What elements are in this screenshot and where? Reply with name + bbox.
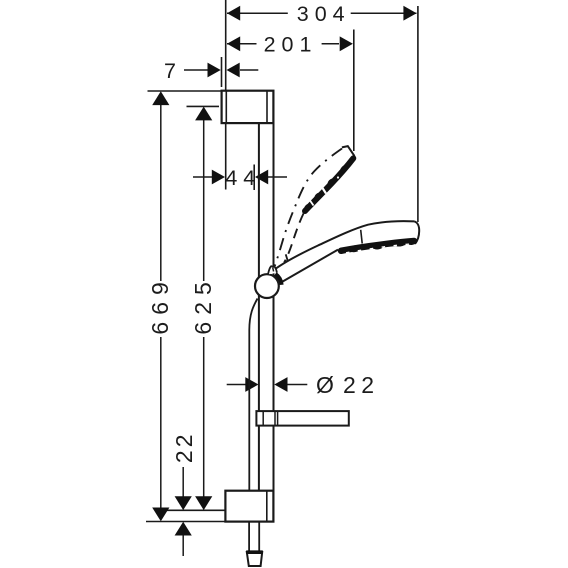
top bracket inner line left [225, 91, 227, 123]
arrow 304 right [403, 6, 416, 21]
dimension 22 vertical line upper [182, 467, 184, 497]
extension line bottom for 625 (y=510.3) [157, 509, 225, 511]
clip prong above handle [286, 254, 288, 261]
upright face band white speck 3 [337, 176, 339, 178]
holder/handle joint shadow [275, 275, 281, 285]
dashed outline left of upright shower (phantom position) [275, 149, 342, 267]
upright face band lump 1 [339, 164, 350, 175]
soap dish collar line right2 [277, 411, 279, 426]
soap dish collar line left [262, 411, 264, 426]
hose left edge curve from handle [249, 299, 257, 491]
extension line 44 left: wall line below bracket (x=225.7) [225, 123, 227, 190]
dimension 44 tail lines [193, 176, 213, 178]
top bracket inner line right [266, 91, 268, 123]
svg-text:625: 625 [190, 275, 216, 334]
arrow 22 down (tip at 510.3) [175, 496, 192, 510]
soap dish [256, 411, 348, 426]
extension line bottom for 669 (y=521.5) [146, 521, 225, 523]
arrow 22 up (tip at 521.5) [175, 522, 192, 536]
svg-text:Ø: Ø [316, 372, 334, 398]
solid head handle/face junction tick [361, 230, 363, 244]
upright shower head roof corner [342, 146, 355, 156]
solid face band texture [346, 244, 412, 253]
extension line right of 201 (x=353.8) [353, 30, 355, 152]
extension line 7 left (x=221.5) [221, 57, 223, 87]
dimension Ø22 tail lines [227, 384, 246, 386]
arrow 304 left [227, 6, 240, 21]
bottom bracket inner line [266, 491, 268, 522]
hose conical nut [247, 552, 262, 566]
top wall bracket [222, 91, 274, 123]
hose below bottom bracket left edge [248, 522, 250, 552]
arrow 44 pointing left [255, 170, 268, 185]
dimension 7 tail lines [184, 69, 208, 71]
upright face band white notch 1 [323, 188, 327, 194]
dimension 669 vertical line [160, 105, 162, 281]
holder handle lower line [279, 250, 338, 284]
solid head right edge [415, 221, 420, 243]
upright face band lump 4 [303, 203, 312, 212]
arrow 669 down [152, 508, 169, 522]
solid face band lump 4 [407, 239, 416, 246]
svg-text:7: 7 [164, 59, 176, 83]
extension line top for 625 (y=106.4) [187, 105, 220, 107]
solid head spray face (dark band) [341, 241, 414, 251]
arrow 7 pointing left [227, 63, 240, 78]
svg-text:22: 22 [343, 372, 380, 398]
dimension 304 line [227, 12, 288, 14]
arrow Ø22 pointing left [274, 377, 287, 392]
arrow 625 down [195, 496, 212, 510]
svg-text:669: 669 [147, 275, 173, 334]
svg-text:44: 44 [225, 166, 261, 190]
rail right edge [273, 123, 275, 491]
svg-text:201: 201 [264, 33, 318, 57]
rail left edge [258, 123, 260, 491]
solid face band lump 2 [372, 241, 385, 250]
arrow 201 left [227, 36, 240, 51]
dimension 22 vertical line lower [182, 536, 184, 557]
hose below bottom bracket right edge [258, 522, 260, 552]
arrow 201 right [340, 36, 353, 51]
arrow 44 pointing right [212, 170, 225, 185]
dimension 201 line [227, 43, 257, 45]
svg-text:304: 304 [297, 2, 351, 26]
arrow 625 up [195, 107, 212, 121]
svg-text:22: 22 [171, 432, 197, 464]
dashed outline right of upright shower (phantom position) [284, 214, 303, 263]
holder handle upper line [274, 221, 414, 269]
hose nut thick collar [246, 550, 263, 554]
arrow 669 up [152, 91, 169, 105]
dimension 625 vertical line [203, 119, 205, 281]
upright face band white notch 2 [310, 201, 314, 206]
bottom wall bracket [225, 491, 273, 522]
extension line 44 right (x=254.2) [253, 165, 255, 191]
holder clip notch inner line [272, 268, 275, 272]
upright face band lump 2 [326, 177, 337, 188]
upright face band lump 3 [313, 191, 323, 201]
solid face band lump 3 [394, 239, 407, 247]
extension line right of 304 (x=417.9) [417, 6, 419, 222]
arrow 7 pointing right [208, 63, 221, 78]
upright shower head spray face (dark band) [305, 158, 353, 211]
soap dish collar line right [274, 411, 276, 426]
solid face band lump 1 [349, 244, 362, 253]
wall extension line top (x=225.7, y0-91) [225, 0, 227, 91]
holder clip notch [268, 266, 277, 274]
extension line top for 669 (y=91) [148, 90, 222, 92]
arrow Ø22 pointing right [245, 377, 258, 392]
holder circle [255, 274, 279, 298]
